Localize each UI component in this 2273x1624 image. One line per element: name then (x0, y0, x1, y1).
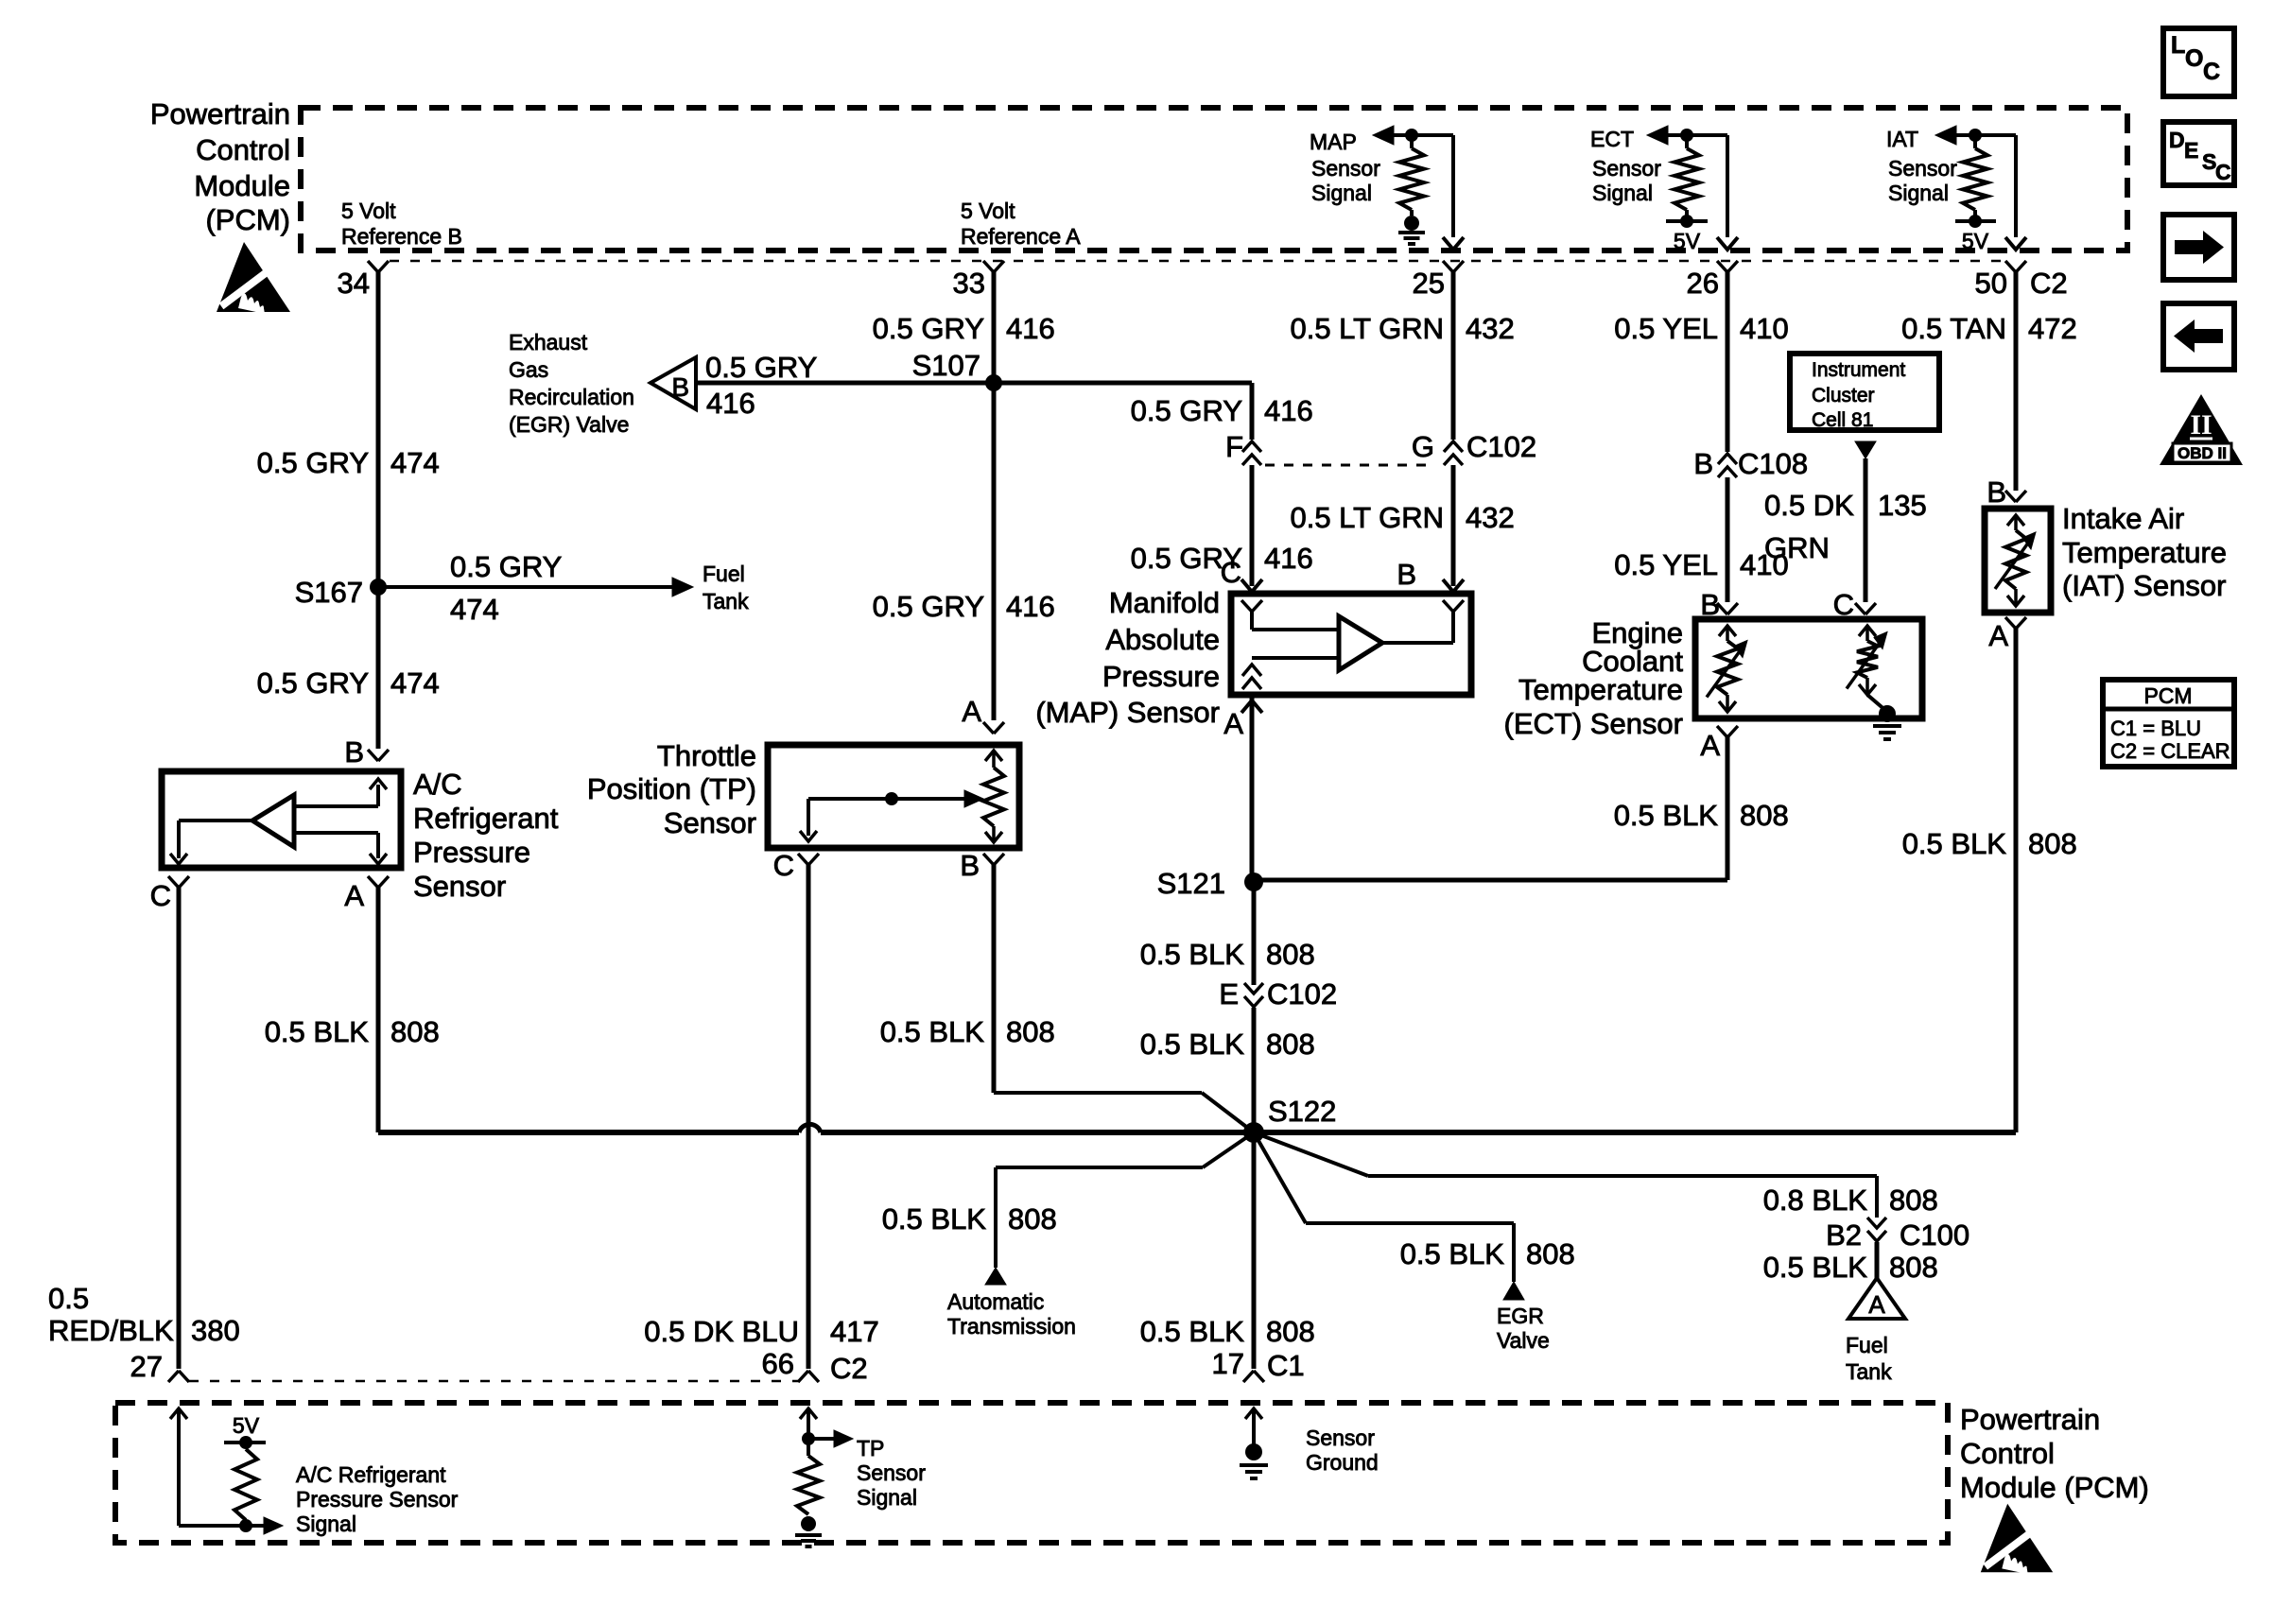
svg-text:432: 432 (1466, 501, 1515, 534)
A/C internal arrow up to B (376, 785, 380, 806)
svg-text:PCM: PCM (2143, 683, 2192, 708)
svg-text:Gas: Gas (509, 357, 548, 382)
svg-text:Module (PCM): Module (PCM) (1960, 1471, 2149, 1504)
svg-text:Temperature: Temperature (2062, 536, 2227, 569)
wire branch S122 to Automatic Transmission (1203, 1132, 1254, 1167)
svg-text:0.5 GRY: 0.5 GRY (873, 312, 984, 345)
svg-text:Intake Air: Intake Air (2062, 502, 2184, 535)
wire 410 inside PCM box down to pin 26 (1726, 135, 1729, 237)
pin E connector C102 (1244, 983, 1263, 993)
svg-text:Module: Module (194, 169, 290, 202)
svg-text:33: 33 (953, 267, 985, 300)
svg-text:0.5 YEL: 0.5 YEL (1614, 548, 1718, 581)
potentiometer TP sensor (985, 751, 1002, 761)
icon OBD II triangle (2160, 394, 2243, 465)
IAT sensor box (1985, 509, 2051, 613)
icon box right arrow (2163, 215, 2234, 280)
svg-text:Recirculation: Recirculation (509, 385, 634, 409)
svg-text:E: E (1219, 977, 1239, 1011)
svg-text:C102: C102 (1466, 430, 1536, 463)
svg-text:(IAT) Sensor: (IAT) Sensor (2062, 569, 2226, 602)
svg-text:416: 416 (1264, 542, 1313, 575)
svg-text:Transmission: Transmission (947, 1314, 1076, 1339)
svg-text:27: 27 (130, 1350, 163, 1383)
svg-text:IAT: IAT (1886, 127, 1918, 151)
ECT internal ground lead (1867, 695, 1887, 712)
svg-text:0.5 GRY: 0.5 GRY (257, 666, 369, 700)
svg-text:0.5 GRY: 0.5 GRY (873, 590, 984, 623)
svg-text:0.5 BLK: 0.5 BLK (1763, 1251, 1868, 1284)
svg-text:Cluster: Cluster (1812, 385, 1875, 406)
svg-text:Signal: Signal (1888, 181, 1949, 205)
node junction dot ECT signal (1680, 129, 1693, 142)
pin A inside MAP box chevron (1242, 665, 1261, 676)
pin G connector C102 (1444, 441, 1463, 452)
svg-text:C2: C2 (2030, 267, 2068, 300)
svg-text:416: 416 (706, 387, 755, 420)
svg-text:808: 808 (1266, 1315, 1315, 1348)
svg-text:Sensor: Sensor (1888, 156, 1957, 181)
svg-text:A/C: A/C (413, 768, 462, 801)
pin B ECT sensor Y (1717, 603, 1727, 614)
svg-text:34: 34 (338, 267, 370, 300)
svg-text:S121: S121 (1157, 867, 1225, 900)
svg-text:Signal: Signal (1592, 181, 1653, 205)
pin C TP below box (798, 854, 808, 865)
svg-text:417: 417 (830, 1315, 879, 1348)
svg-text:C: C (1221, 556, 1241, 589)
wire MAP signal horizontal (1394, 133, 1453, 137)
icon box DESC (2163, 122, 2234, 185)
svg-text:Tank: Tank (703, 589, 749, 613)
svg-text:0.5 BLK: 0.5 BLK (1400, 1237, 1505, 1270)
icon box LOC (2163, 28, 2234, 96)
svg-text:17: 17 (1212, 1347, 1244, 1380)
wire 25 vertical 0.5 LT GRN 432 (1451, 271, 1456, 440)
svg-text:808: 808 (2028, 827, 2077, 860)
ground ECT sensor (1873, 724, 1901, 728)
svg-text:Signal: Signal (857, 1485, 917, 1510)
svg-text:C2: C2 (830, 1352, 868, 1385)
svg-text:0.5 BLK: 0.5 BLK (1614, 799, 1719, 832)
svg-text:0.5 GRY: 0.5 GRY (1131, 394, 1242, 427)
wire C108 down to ECT pin B (1726, 477, 1730, 602)
arrow TP sensor signal (808, 1437, 836, 1441)
splice S122 (1243, 1122, 1264, 1143)
pin 25 connector Y (1443, 261, 1453, 272)
svg-text:416: 416 (1006, 312, 1055, 345)
svg-text:TP: TP (857, 1436, 884, 1460)
svg-text:GRN: GRN (1764, 531, 1830, 564)
wire IAT pin A down 0.5 BLK 808 (2014, 627, 2019, 1132)
MAP internal wiring A to amp (1252, 656, 1339, 660)
wire pin 17 down inside PCM (1252, 1410, 1256, 1446)
5V supply bar A/C (224, 1441, 266, 1444)
wire 135 DK GRN down to ECT pin C (1864, 458, 1868, 602)
pin F connector C102 (1242, 441, 1261, 452)
wire 33 vertical 0.5 GRY 416 (992, 271, 997, 720)
svg-text:Tank: Tank (1846, 1359, 1892, 1384)
node junction dot TP signal (802, 1432, 815, 1445)
pin 26 connector Y (1717, 261, 1727, 272)
pin 33 connector Y (983, 261, 994, 272)
svg-text:F: F (1225, 430, 1243, 463)
5V supply bar IAT (1973, 210, 1977, 221)
svg-text:A: A (1700, 729, 1720, 762)
svg-text:A: A (1988, 619, 2008, 652)
svg-text:Instrument: Instrument (1812, 359, 1905, 381)
svg-text:Pressure Sensor: Pressure Sensor (296, 1487, 459, 1512)
svg-text:Reference A: Reference A (961, 224, 1081, 249)
svg-text:Pressure: Pressure (1102, 660, 1220, 693)
PCM connector legend box (2103, 680, 2234, 767)
svg-text:Valve: Valve (1497, 1328, 1550, 1353)
svg-text:C: C (773, 849, 794, 882)
node sensor ground dot (1245, 1443, 1262, 1460)
svg-text:474: 474 (390, 446, 440, 479)
wire TP pin B down (0.5 BLK 808) (992, 863, 997, 1093)
svg-text:A/C Refrigerant: A/C Refrigerant (296, 1462, 446, 1487)
wire C100 down to fuel tank A (1875, 1242, 1880, 1278)
svg-text:Powertrain: Powertrain (150, 97, 290, 130)
svg-text:L: L (2171, 32, 2185, 59)
connector C2 thin dashed line (top) (390, 260, 2004, 263)
svg-text:B: B (344, 735, 364, 769)
wire ECT signal horizontal (1668, 133, 1727, 137)
node junction dot MAP signal (1405, 129, 1418, 142)
svg-text:Fuel: Fuel (703, 561, 745, 586)
svg-text:E: E (2184, 138, 2198, 163)
arrow down at PCM boundary pin 50 (2005, 237, 2026, 250)
wire A/C pin C down (0.5 RED/BLK 380) (177, 886, 182, 1369)
svg-text:C1 = BLU: C1 = BLU (2110, 717, 2201, 740)
pin 66 connector (798, 1371, 808, 1382)
resistor IAT signal pull-up (1973, 135, 1977, 148)
svg-text:0.5 BLK: 0.5 BLK (265, 1015, 370, 1048)
TP wiper to pin C (807, 799, 810, 836)
IAT sensor signal arrow (left) (1935, 126, 1956, 145)
svg-text:474: 474 (450, 593, 499, 626)
svg-text:Sensor: Sensor (413, 870, 506, 903)
pin B2 connector C100 (1867, 1218, 1886, 1228)
svg-text:(EGR) Valve: (EGR) Valve (509, 412, 629, 437)
connector C102 dashed line F to G (1265, 464, 1433, 467)
svg-text:5 Volt: 5 Volt (341, 199, 396, 223)
svg-text:5 Volt: 5 Volt (961, 199, 1015, 223)
pin B IAT sensor Y (2005, 491, 2016, 502)
svg-text:A: A (962, 695, 981, 728)
wire branch S122 to C100 fuel tank (1254, 1132, 1368, 1176)
wire 26 vertical 0.5 YEL 410 (1726, 271, 1730, 452)
svg-text:B: B (1397, 558, 1416, 591)
svg-text:Ground: Ground (1306, 1450, 1379, 1475)
svg-text:0.5 BLK: 0.5 BLK (1140, 938, 1245, 971)
svg-text:Refrigerant: Refrigerant (413, 802, 559, 835)
ground TP signal (801, 1516, 816, 1531)
ESD warning symbol top-left (217, 242, 290, 314)
svg-text:C102: C102 (1267, 977, 1337, 1011)
wire main ground bus horizontal (378, 1130, 799, 1135)
svg-text:Position (TP): Position (TP) (587, 772, 756, 805)
TP sensor box (768, 745, 1019, 848)
svg-text:(MAP) Sensor: (MAP) Sensor (1035, 696, 1220, 729)
MAP internal wiring C to amp (1250, 612, 1254, 630)
A/C internal wiring lower input (294, 831, 378, 835)
off-page triangle from Instrument Cluster (1855, 441, 1876, 458)
pin B A/C sensor Y (368, 750, 378, 761)
svg-text:II: II (2190, 409, 2212, 441)
connector C2 thin dashed line (bottom) (189, 1380, 799, 1383)
svg-text:MAP: MAP (1310, 130, 1357, 154)
arrow down at PCM boundary pin 25 (1443, 237, 1464, 250)
svg-text:B2: B2 (1826, 1218, 1862, 1252)
svg-text:Sensor: Sensor (1311, 156, 1380, 181)
svg-text:C1: C1 (1267, 1349, 1305, 1382)
svg-text:808: 808 (1889, 1251, 1938, 1284)
wire 432 inside PCM box down to pin 25 (1451, 135, 1455, 237)
node ECT ground dot (1879, 705, 1896, 722)
svg-text:RED/BLK: RED/BLK (48, 1314, 174, 1347)
svg-text:432: 432 (1466, 312, 1515, 345)
wire S167 to fuel tank (378, 585, 673, 589)
svg-text:Signal: Signal (1311, 181, 1372, 205)
svg-text:25: 25 (1413, 267, 1445, 300)
svg-text:Sensor: Sensor (1306, 1425, 1375, 1450)
arrow down at PCM boundary pin 26 (1717, 237, 1738, 250)
svg-text:Temperature: Temperature (1518, 673, 1683, 706)
pin C ECT sensor Y (1855, 603, 1865, 614)
wire pin 66 down inside PCM (807, 1410, 810, 1456)
svg-text:808: 808 (1008, 1202, 1057, 1235)
wire 34 vertical 0.5 GRY 474 (376, 271, 381, 749)
wire branch TP B to S122 (994, 1091, 1202, 1095)
svg-text:B: B (671, 372, 689, 402)
svg-text:A: A (344, 879, 364, 912)
svg-text:0.5: 0.5 (48, 1282, 89, 1315)
svg-text:416: 416 (1264, 394, 1313, 427)
thermistor IAT (2007, 515, 2024, 526)
svg-text:S122: S122 (1268, 1095, 1336, 1128)
wire ECT A to S121 (1254, 878, 1727, 883)
pin A IAT below box (2005, 617, 2016, 629)
PCM module bottom dashed box (115, 1403, 1948, 1543)
A/C internal arrow down to A (370, 854, 387, 864)
svg-text:Reference B: Reference B (341, 224, 462, 249)
svg-text:808: 808 (1006, 1015, 1055, 1048)
ECT sensor signal arrow (left) (1647, 126, 1668, 145)
svg-text:0.5 TAN: 0.5 TAN (1901, 312, 2006, 345)
svg-text:Powertrain: Powertrain (1960, 1403, 2100, 1436)
thermistor ECT B side (1719, 626, 1736, 636)
svg-text:380: 380 (191, 1314, 240, 1347)
wire IAT signal horizontal (1956, 133, 2016, 137)
TP wiper arrow (808, 797, 970, 801)
svg-text:26: 26 (1687, 267, 1719, 300)
svg-text:0.5 BLK: 0.5 BLK (1140, 1028, 1245, 1061)
svg-text:(ECT) Sensor: (ECT) Sensor (1504, 707, 1683, 740)
resistor ECT signal pull-up (1685, 135, 1689, 148)
ground MAP signal resistor (1410, 210, 1414, 216)
svg-text:474: 474 (390, 666, 440, 700)
svg-text:G: G (1412, 430, 1434, 463)
icon box left arrow (2163, 303, 2234, 370)
pin C inside MAP box Y (1241, 600, 1252, 612)
svg-text:Throttle: Throttle (657, 739, 756, 772)
svg-text:C: C (150, 879, 171, 912)
A/C amp output to pin C (179, 819, 252, 822)
arrow down into MAP pin C (1241, 579, 1262, 592)
svg-text:66: 66 (762, 1347, 794, 1380)
splice S167 (370, 579, 387, 596)
svg-text:808: 808 (1266, 1028, 1315, 1061)
wire E C102 down to S122 (1252, 1008, 1257, 1132)
svg-text:Sensor: Sensor (1592, 156, 1661, 181)
svg-text:Absolute: Absolute (1105, 623, 1220, 656)
svg-text:Signal: Signal (296, 1512, 356, 1536)
svg-text:0.8 BLK: 0.8 BLK (1763, 1183, 1868, 1217)
svg-text:0.5 GRY: 0.5 GRY (257, 446, 369, 479)
wire ECT pin A down 0.5 BLK 808 (1726, 735, 1730, 880)
MAP sensor box (1231, 594, 1471, 695)
legend divider (2103, 707, 2234, 712)
pin A ECT below box (1717, 726, 1727, 737)
pin A A/C below box (368, 876, 378, 888)
svg-text:(PCM): (PCM) (205, 203, 290, 236)
pin 27 connector (168, 1371, 179, 1382)
svg-text:0.5 LT GRN: 0.5 LT GRN (1290, 312, 1444, 345)
connector triangle A Fuel Tank (1848, 1278, 1905, 1319)
wire TP pin C down (0.5 DK BLU 417) (807, 863, 811, 1369)
svg-text:410: 410 (1740, 312, 1789, 345)
ESD warning symbol bottom-right (1981, 1504, 2053, 1574)
svg-text:808: 808 (1266, 938, 1315, 971)
off-page triangle Automatic Transmission (985, 1268, 1006, 1285)
Instrument Cluster box (1790, 354, 1939, 430)
svg-text:0.5 YEL: 0.5 YEL (1614, 312, 1718, 345)
svg-text:808: 808 (1740, 799, 1789, 832)
svg-text:S167: S167 (295, 576, 363, 609)
wire A/C pin A down (0.5 BLK 808) (376, 886, 381, 1132)
pin 17 connector (1243, 1371, 1254, 1382)
node junction dot IAT signal (1969, 129, 1982, 142)
svg-text:C100: C100 (1900, 1218, 1969, 1252)
svg-text:Cell 81: Cell 81 (1812, 409, 1873, 431)
svg-text:Control: Control (196, 133, 290, 166)
svg-text:808: 808 (1889, 1183, 1938, 1217)
resistor A/C signal (234, 1449, 257, 1520)
wire pin 27 down inside PCM (177, 1410, 181, 1526)
arrow A/C refrigerant pressure sensor signal (264, 1517, 283, 1534)
pin A TP sensor Y (983, 722, 994, 734)
thermistor ECT C side (1859, 626, 1876, 636)
svg-text:Fuel: Fuel (1846, 1333, 1888, 1357)
wire MAP pin A down (1250, 695, 1255, 875)
svg-text:808: 808 (1526, 1237, 1575, 1270)
wire F down to MAP sensor pin C (1250, 465, 1255, 586)
op-amp MAP (right pointing) (1339, 616, 1382, 670)
svg-text:5V: 5V (1674, 229, 1701, 253)
svg-text:OBD II: OBD II (2178, 444, 2227, 462)
arrow up into MAP pin A (1241, 700, 1262, 713)
svg-text:C108: C108 (1738, 447, 1808, 480)
arrow up into pin 66 (800, 1408, 817, 1419)
wire 472 inside PCM box down to pin 50 (2014, 135, 2018, 237)
node wiper dot TP (885, 792, 898, 805)
op-amp A/C (left pointing) (252, 795, 294, 847)
svg-text:0.5 LT GRN: 0.5 LT GRN (1290, 501, 1444, 534)
svg-text:472: 472 (2028, 312, 2077, 345)
arrow down into MAP pin B (1443, 579, 1464, 592)
EGR valve triangle connector B (651, 357, 696, 409)
resistor TP signal (797, 1456, 820, 1514)
svg-text:S107: S107 (912, 349, 980, 382)
wire S122 down to pin 17 C1 (1252, 1132, 1257, 1369)
svg-text:C: C (2203, 59, 2220, 85)
pin B TP below box (983, 854, 994, 865)
ECT sensor box (1695, 619, 1922, 718)
svg-text:Control: Control (1960, 1437, 2055, 1470)
A/C refrigerant pressure sensor box (162, 771, 401, 868)
svg-text:Sensor: Sensor (664, 806, 756, 839)
svg-text:Sensor: Sensor (857, 1460, 926, 1485)
svg-text:50: 50 (1975, 267, 2007, 300)
svg-text:135: 135 (1878, 489, 1927, 522)
pin 50 connector Y (2005, 261, 2016, 272)
svg-text:ECT: ECT (1590, 127, 1634, 151)
svg-text:C2 = CLEAR: C2 = CLEAR (2110, 739, 2230, 763)
svg-text:0.5 GRY: 0.5 GRY (705, 351, 817, 384)
pin C A/C below box (168, 876, 179, 888)
svg-text:0.5 DK BLU: 0.5 DK BLU (644, 1315, 799, 1348)
svg-text:Manifold: Manifold (1109, 586, 1220, 619)
wire 50 vertical 0.5 TAN 472 (2014, 271, 2019, 491)
svg-text:0.5 BLK: 0.5 BLK (882, 1202, 987, 1235)
svg-text:B: B (1693, 447, 1713, 480)
wire G down to MAP sensor pin B (1451, 465, 1456, 586)
svg-text:0.5 BLK: 0.5 BLK (880, 1015, 985, 1048)
svg-text:Exhaust: Exhaust (509, 330, 588, 354)
arrow up into pin 17 (1245, 1408, 1262, 1419)
svg-text:0.5 BLK: 0.5 BLK (1140, 1315, 1245, 1348)
svg-text:EGR: EGR (1497, 1304, 1544, 1328)
svg-text:A: A (1868, 1290, 1885, 1319)
A/C internal wiring upper input (294, 804, 378, 808)
svg-text:0.5 DK: 0.5 DK (1764, 489, 1854, 522)
resistor MAP signal pull-up (1410, 135, 1414, 148)
pin B connector C108 (1718, 454, 1737, 464)
svg-text:D: D (2169, 128, 2185, 152)
arrow to Fuel Tank (672, 578, 693, 596)
pin B inside MAP box Y (1443, 600, 1453, 612)
svg-text:5V: 5V (1962, 229, 1989, 253)
svg-text:B: B (960, 849, 980, 882)
pin 34 connector Y (368, 261, 378, 272)
5V supply bar ECT (1685, 210, 1689, 221)
svg-text:B: B (1987, 475, 2006, 509)
wire 0.5 GRY 416 from EGR to S107 (696, 381, 994, 386)
wire MAP A to S121 to E C102 to S122 vertical (1252, 875, 1257, 985)
svg-text:Pressure: Pressure (413, 836, 530, 869)
svg-text:0.5 BLK: 0.5 BLK (1902, 827, 2007, 860)
MAP amp output to pin B (1382, 641, 1453, 645)
svg-text:C: C (2215, 160, 2231, 184)
node junction dot A/C signal (239, 1519, 252, 1532)
wire S107 to MAP C branch (994, 381, 1252, 386)
arrow up into pin 27 (170, 1408, 187, 1419)
svg-text:416: 416 (1006, 590, 1055, 623)
svg-text:O: O (2185, 45, 2203, 72)
ground sensor ground (1240, 1463, 1268, 1467)
